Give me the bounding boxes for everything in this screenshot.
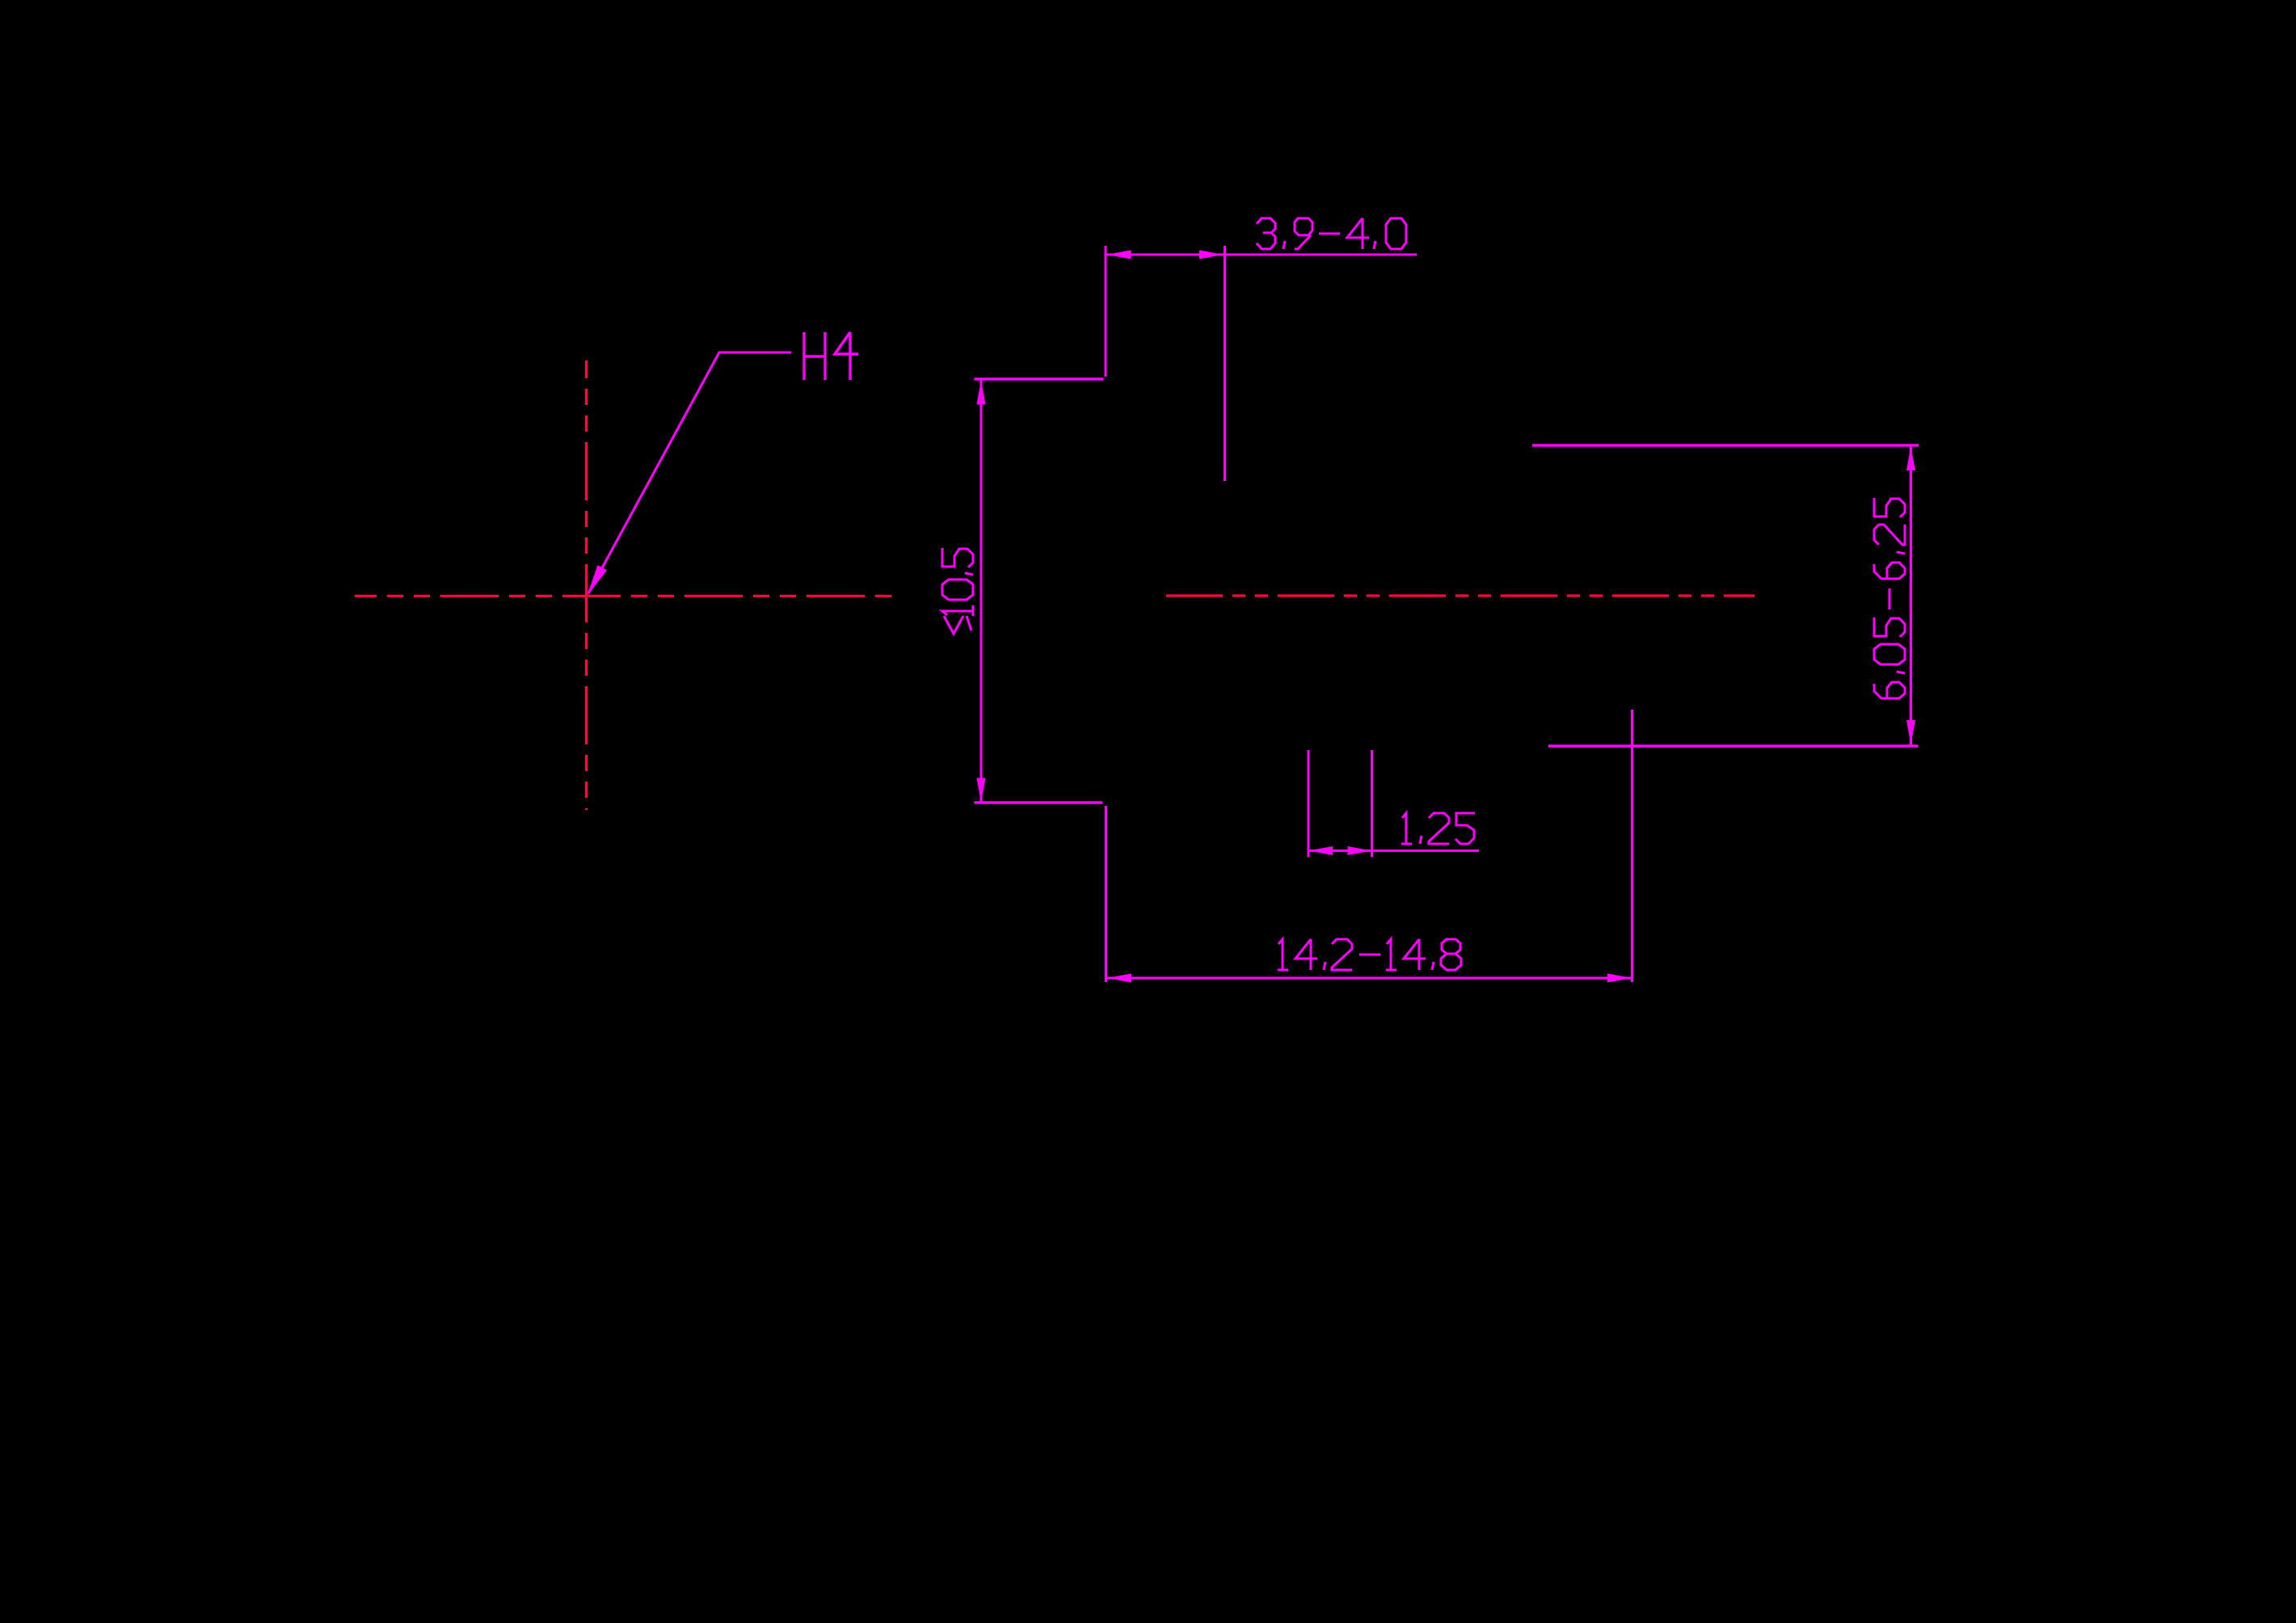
arrowhead of H4 leader [587,565,607,596]
extension line right of 14.2-14.8 [1631,710,1633,982]
centerline vertical (left view crosshair) [585,360,588,810]
arrowhead top of 10.5 [977,381,986,405]
dimension line 10.5 (vertical) [980,381,983,803]
dimension text 3,9-4,0 [1257,218,1275,249]
arrowhead right of 1.25 [1348,846,1372,855]
dimension text 14,2-14,8 [1278,939,1288,970]
text H4 : digit 4 [835,332,858,380]
dimension line 3.9-4.0 [1106,254,1417,256]
extension line right of 1.25 [1371,750,1373,858]
part outline: bottom-left step horizontal edge [975,801,1103,803]
part outline: top-left corner vertical edge / extension line of 3.9-4.0 [1105,246,1107,377]
arrowhead right of 3.9-4.0 [1199,251,1224,259]
dimension text ≤10,5 (rotated) [942,548,973,634]
dimension text 6,05-6,25 (rotated) [1874,498,1905,698]
dimension line 14.2-14.8 [1107,977,1632,980]
arrowhead right of 14.2-14.8 [1607,974,1632,983]
arrowhead left of 3.9-4.0 [1107,251,1131,259]
dimension text 1,25 [1401,813,1412,844]
arrowhead left of 1.25 [1308,846,1333,855]
arrowhead bottom of 6.05-6.25 [1906,720,1915,744]
arrowhead left of 14.2-14.8 [1107,974,1131,983]
centerline horizontal (right view axis) [1166,594,1755,597]
arrowhead top of 6.05-6.25 [1906,446,1915,470]
extension line left of 1.25 [1308,750,1310,858]
part outline: bottom-left vertical edge / left extension of 14.2-14.8 [1105,806,1107,982]
dimension line 6.05-6.25 (vertical) [1910,446,1912,744]
extension line right of 3.9-4.0 [1224,246,1226,481]
part outline: bottom-right horizontal edge [1548,744,1919,747]
dimension line 1.25 [1308,849,1479,852]
part outline: top-left step horizontal edge [975,377,1104,380]
arrowhead bottom of 10.5 [977,778,986,803]
centerline horizontal (left view crosshair) [355,595,891,597]
part outline: top-right horizontal edge [1532,444,1919,446]
text H4 : letter H [804,332,825,380]
leader line of H4 label [588,352,791,593]
